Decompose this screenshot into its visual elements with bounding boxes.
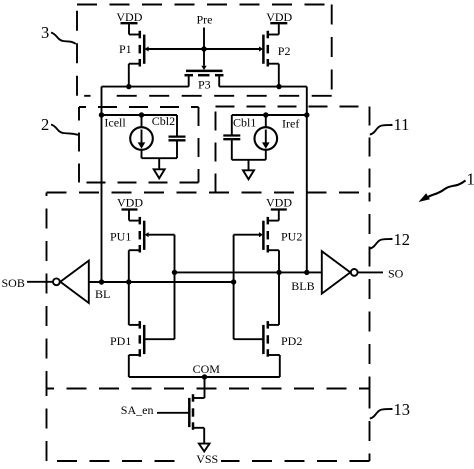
svg-text:VDD: VDD [266,10,292,24]
svg-text:Cbl2: Cbl2 [152,114,175,128]
leader for label 13 [370,409,393,419]
transistor PU1 (PMOS) [140,217,149,253]
white gap in box3 bottom edge at BL rail [91,92,113,99]
transistor PU2 (PMOS) [259,217,268,253]
wire PU1 gate to cross node [148,235,175,340]
wire PU2 drain rail [268,250,279,272]
inverter left (SOB) [27,261,89,303]
svg-text:SA_en: SA_en [121,403,154,417]
ground box11 [243,160,254,180]
wire SA_en drain to COM [193,377,205,398]
leader for label 11 [370,125,393,135]
wire gate line P1-P2 [148,48,261,50]
svg-text:Iref: Iref [282,117,299,131]
svg-text:12: 12 [394,230,411,249]
svg-text:BL: BL [95,287,110,301]
svg-text:P3: P3 [198,78,211,92]
svg-text:13: 13 [394,400,411,419]
wire PD1 drain rail [129,282,140,325]
svg-text:PU2: PU2 [281,230,302,244]
svg-text:1: 1 [467,169,474,188]
node BLB-Iref dot [304,112,309,117]
VDD rail latch-left [122,210,140,221]
node Pre junction [201,46,206,51]
node Icell top dot [139,112,144,117]
wire cross A (BLB side) [175,271,322,273]
wire PU2 gate to cross node [234,235,260,340]
wire Iref top [232,114,307,116]
wire Icell top [102,114,178,116]
transistor SA_en (NMOS) [157,394,193,430]
wire P1 drain to node [129,64,140,87]
dashed box 3 (precharge block) [77,5,332,96]
svg-text:BLB: BLB [291,279,314,293]
dashed box 12 (sense amplifier latch block) [47,193,370,389]
wire precharge node right [219,86,307,88]
transistor PD1 (NMOS) [140,321,175,357]
leader for label 3 [51,33,76,44]
ground VSS symbol [199,444,210,452]
wire Icell bottom [142,157,178,159]
wire P2 drain to node [268,64,279,87]
wire PU1 drain rail [129,250,140,282]
svg-text:PD1: PD1 [110,334,131,348]
wire PD2 source [268,355,280,377]
capacitor Cbl1 [223,115,240,160]
VDD rail top-right [268,23,288,34]
node P2 drain dot [276,84,281,89]
svg-text:Icell: Icell [104,115,126,129]
arrow for label 1 [419,181,466,203]
dashed box 13 (enable block) [47,389,370,462]
wire SA_en source to VSS [193,428,204,444]
wire Iref bottom [232,159,266,161]
transistor PD2 (NMOS) [234,321,268,357]
svg-text:VDD: VDD [116,10,142,24]
capacitor Cbl2 [169,115,186,158]
svg-text:Pre: Pre [197,13,213,27]
svg-text:Cbl1: Cbl1 [233,115,256,129]
current source Iref [254,115,277,160]
wire BLB rail [306,87,308,273]
svg-text:2: 2 [41,115,49,134]
dashed box 11 (reference current source block) [216,107,370,193]
VDD rail top-left [121,23,140,34]
svg-text:PD2: PD2 [281,334,302,348]
node dots cross wires [172,270,177,275]
svg-text:VSS: VSS [196,452,218,466]
svg-text:VDD: VDD [266,196,292,210]
svg-text:P2: P2 [278,44,291,58]
svg-text:VDD: VDD [117,196,143,210]
svg-text:3: 3 [41,23,49,42]
wire COM [129,376,280,378]
leader for label 12 [370,239,393,249]
wire PD1 source [129,355,140,377]
wire BL rail [101,87,103,282]
inverter right (SO) [322,251,383,293]
VDD rail latch-right [268,210,287,221]
dashed box 2 (cell current source block) [79,107,199,183]
ground box2 [154,158,165,178]
svg-text:11: 11 [394,115,410,134]
white gap in dashed edge behind VSS label [185,457,221,466]
node BL-Icell dot [99,112,104,117]
transistor P1 (PMOS) [140,31,149,67]
node P1 drain dot [126,84,131,89]
svg-text:SOB: SOB [2,276,25,290]
node COM dot [202,374,207,379]
leader for label 2 [51,125,78,135]
wire Pre stem [203,28,205,66]
transistor P2 (PMOS) [259,31,268,67]
svg-text:P1: P1 [119,42,132,56]
wire PD2 drain rail [268,272,279,325]
svg-text:COM: COM [193,362,221,376]
current source Icell [130,115,153,158]
svg-text:SO: SO [388,267,404,281]
transistor P3 (PMOS equalizer) [185,66,224,87]
svg-text:PU1: PU1 [110,230,131,244]
wire cross B (BL side) [89,281,234,283]
wire precharge node left [102,86,189,88]
node Iref top dot [263,112,268,117]
